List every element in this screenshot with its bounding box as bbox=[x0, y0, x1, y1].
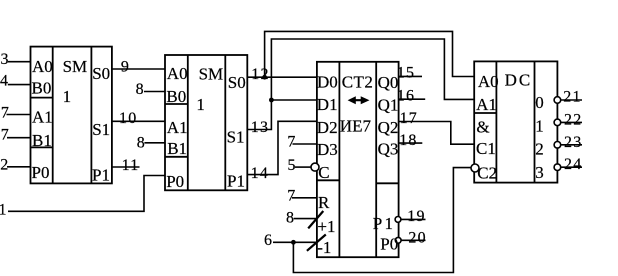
terminal circle DC output 0 bbox=[554, 97, 561, 104]
svg-text:1: 1 bbox=[196, 95, 205, 114]
svg-text:P1: P1 bbox=[227, 172, 245, 191]
svg-text:P1: P1 bbox=[373, 214, 395, 233]
svg-text:P1: P1 bbox=[92, 165, 110, 184]
svg-text:Q0: Q0 bbox=[378, 73, 399, 92]
terminal circle CT C input bbox=[311, 163, 319, 171]
wire input 3 to SM1 A0 bbox=[8, 61, 31, 63]
wire stub 7 to CT R bbox=[292, 197, 317, 199]
terminal circle DC output 2 bbox=[554, 142, 561, 149]
terminal circle DC output 1 bbox=[554, 119, 561, 126]
svg-text:B1: B1 bbox=[32, 131, 52, 150]
svg-text:13: 13 bbox=[251, 119, 269, 136]
junction node on wire 6 bbox=[291, 240, 296, 245]
svg-text:D1: D1 bbox=[317, 95, 338, 114]
svg-text:P0: P0 bbox=[32, 163, 50, 182]
decoder DC box bbox=[474, 61, 557, 182]
wire input 8 to SM2 B0 bbox=[144, 91, 165, 93]
svg-text:DC: DC bbox=[505, 70, 533, 89]
svg-text:A0: A0 bbox=[32, 57, 53, 76]
svg-text:14: 14 bbox=[251, 165, 269, 182]
wire input 8 to CT +1 bbox=[294, 218, 317, 220]
svg-text:S0: S0 bbox=[228, 73, 246, 92]
svg-text:2: 2 bbox=[535, 140, 544, 159]
svg-text:S0: S0 bbox=[92, 64, 110, 83]
svg-text:9: 9 bbox=[121, 59, 130, 76]
svg-text:19: 19 bbox=[407, 208, 425, 225]
wire input 2 to SM1 P0 bbox=[7, 166, 31, 168]
terminal circle DC output 3 bbox=[554, 164, 561, 171]
svg-text:23: 23 bbox=[564, 134, 582, 151]
slash mark on -1 input bbox=[307, 235, 326, 251]
wire stub 15 CT Q0 bbox=[399, 75, 422, 77]
wire input 7 to SM1 A1 bbox=[7, 114, 31, 116]
svg-text:8: 8 bbox=[286, 209, 295, 226]
wire 14 SM2 P1 to CT D2 bbox=[247, 121, 317, 174]
svg-text:B1: B1 bbox=[167, 139, 187, 158]
svg-text:D3: D3 bbox=[317, 140, 338, 159]
wire stub 22 DC out 1 bbox=[561, 121, 582, 123]
svg-text:1: 1 bbox=[535, 116, 544, 135]
svg-text:2: 2 bbox=[0, 157, 9, 174]
svg-text:+1: +1 bbox=[317, 217, 335, 236]
svg-text:Q3: Q3 bbox=[378, 140, 399, 159]
junction node on wire 13 at D1 bbox=[269, 98, 274, 103]
svg-text:7: 7 bbox=[287, 134, 296, 151]
svg-text:ИЕ7: ИЕ7 bbox=[340, 116, 372, 135]
wire input 8 to SM2 B1 bbox=[144, 142, 165, 144]
svg-text:3: 3 bbox=[535, 163, 544, 182]
wire stub 24 DC out 3 bbox=[561, 166, 582, 168]
wire input 4 to SM1 B0 bbox=[8, 84, 31, 86]
svg-text:12: 12 bbox=[251, 66, 269, 83]
wire node 12 up to top bus A0 bbox=[265, 31, 475, 77]
svg-text:P0: P0 bbox=[166, 172, 184, 191]
svg-text:15: 15 bbox=[397, 64, 415, 81]
svg-text:A1: A1 bbox=[476, 95, 497, 114]
wire stub 7 to CT D3 bbox=[293, 143, 317, 145]
bidirectional arrow symbol in CT2 bbox=[348, 96, 370, 104]
svg-text:8: 8 bbox=[137, 134, 146, 151]
wire 9 SM1 S0 to SM2 A0 bbox=[112, 68, 165, 70]
svg-text:C1: C1 bbox=[476, 139, 496, 158]
wire stub 11 SM1 P1 bbox=[112, 166, 140, 168]
svg-text:Q2: Q2 bbox=[378, 118, 399, 137]
svg-text:21: 21 bbox=[563, 89, 581, 106]
svg-text:17: 17 bbox=[400, 110, 418, 127]
wire branch to CT D1 bbox=[271, 99, 317, 101]
counter CT2 IE7 box bbox=[317, 62, 399, 257]
svg-text:D0: D0 bbox=[317, 72, 338, 91]
wire input 7 to SM1 B1 bbox=[7, 137, 31, 139]
svg-text:A0: A0 bbox=[167, 64, 188, 83]
svg-text:5: 5 bbox=[288, 157, 297, 174]
svg-text:Q1: Q1 bbox=[378, 96, 399, 115]
svg-text:&: & bbox=[476, 117, 489, 136]
wire stub 21 DC out 0 bbox=[561, 99, 582, 101]
svg-text:3: 3 bbox=[1, 51, 10, 68]
svg-text:16: 16 bbox=[397, 87, 415, 104]
adder SM2 box bbox=[165, 55, 247, 190]
svg-text:7: 7 bbox=[1, 105, 10, 122]
svg-text:1: 1 bbox=[0, 201, 8, 218]
wire stub 20 CT P0 bbox=[401, 239, 426, 241]
svg-text:SM: SM bbox=[199, 64, 224, 83]
wire input 1 to SM2 P0 bbox=[8, 176, 165, 212]
wire input 6 to CT -1 bbox=[273, 241, 317, 243]
svg-text:C2: C2 bbox=[477, 164, 497, 183]
svg-text:20: 20 bbox=[408, 229, 426, 246]
svg-text:22: 22 bbox=[564, 111, 582, 128]
wire 13 SM2 S1 up to top bus A1 bbox=[247, 39, 474, 130]
terminal circle CT P0 output bbox=[395, 237, 401, 243]
svg-text:0: 0 bbox=[535, 93, 544, 112]
svg-text:SM: SM bbox=[63, 57, 88, 76]
svg-text:7: 7 bbox=[1, 127, 10, 144]
junction node on wire 12 bbox=[262, 75, 267, 80]
terminal circle CT P1 output bbox=[395, 217, 401, 223]
svg-text:A0: A0 bbox=[478, 72, 499, 91]
wire stub 16 CT Q1 bbox=[399, 98, 426, 100]
svg-text:11: 11 bbox=[122, 157, 140, 174]
svg-text:P0: P0 bbox=[380, 234, 398, 253]
svg-text:S1: S1 bbox=[227, 128, 245, 147]
wire stub 18 CT Q3 bbox=[399, 142, 423, 144]
svg-text:8: 8 bbox=[136, 81, 145, 98]
wire stub 19 CT P1 bbox=[401, 218, 426, 220]
svg-text:18: 18 bbox=[399, 132, 417, 149]
wire branch 6 to DC C2 bbox=[293, 168, 471, 273]
svg-text:A1: A1 bbox=[167, 118, 188, 137]
svg-text:D2: D2 bbox=[317, 118, 338, 137]
svg-text:-1: -1 bbox=[317, 238, 331, 257]
svg-text:C: C bbox=[318, 163, 329, 182]
svg-text:B0: B0 bbox=[32, 78, 52, 97]
svg-text:1: 1 bbox=[63, 87, 72, 106]
wire stub 23 DC out 2 bbox=[561, 144, 582, 146]
svg-text:B0: B0 bbox=[166, 87, 186, 106]
svg-text:24: 24 bbox=[564, 156, 582, 173]
svg-text:4: 4 bbox=[0, 73, 9, 90]
svg-text:6: 6 bbox=[264, 232, 273, 249]
terminal circle DC C2 input bbox=[471, 164, 479, 172]
wire 17 CT Q2 to DC C1 bbox=[399, 122, 475, 145]
svg-text:S1: S1 bbox=[92, 120, 110, 139]
adder SM1 box bbox=[31, 47, 112, 184]
slash mark on +1 input bbox=[308, 211, 323, 228]
svg-text:7: 7 bbox=[287, 188, 296, 205]
svg-text:10: 10 bbox=[119, 110, 137, 127]
svg-text:CT2: CT2 bbox=[342, 73, 373, 92]
svg-text:A1: A1 bbox=[32, 108, 53, 127]
wire 10 SM1 S1 to SM2 A1 bbox=[112, 120, 165, 122]
wire 12 SM2 S0 to CT D0 bbox=[247, 76, 317, 78]
svg-text:R: R bbox=[318, 193, 330, 212]
wire input 5 to CT C bbox=[295, 166, 311, 168]
